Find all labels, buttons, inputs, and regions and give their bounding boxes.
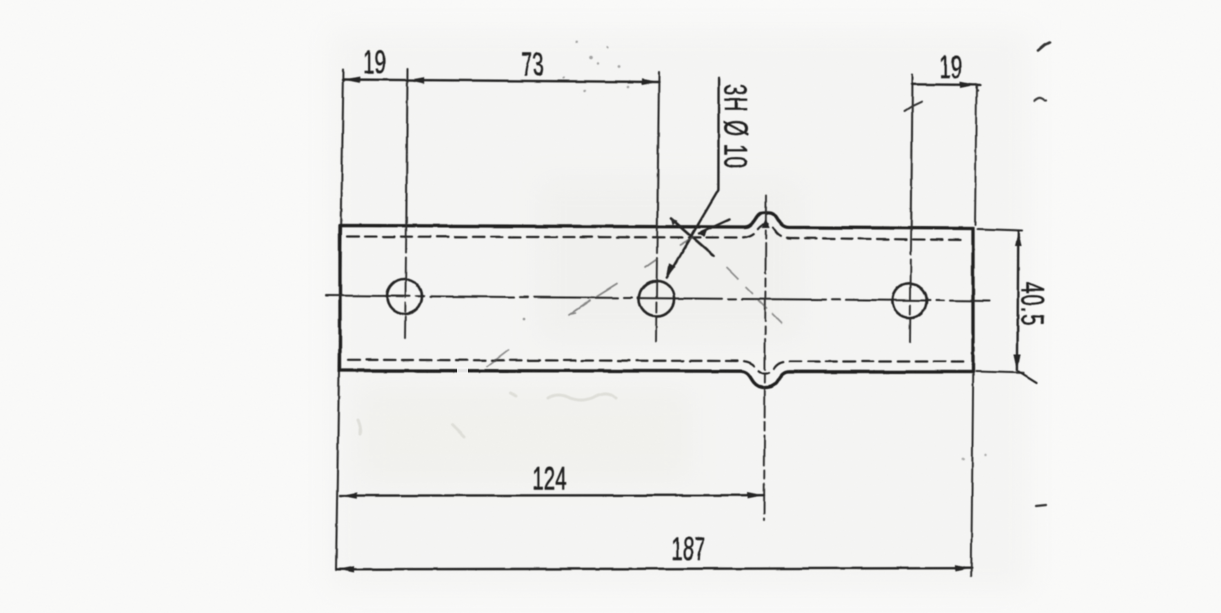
oblique tail [1019, 372, 1037, 383]
faint dots [962, 458, 965, 461]
hole H3 [892, 283, 926, 317]
arrow right [748, 492, 764, 498]
bump centerline (vertical, center) [764, 196, 766, 521]
leader arrowhead [666, 263, 675, 278]
horizontal centerline [326, 296, 990, 302]
right extension line [975, 85, 977, 226]
H2 vertical centerline [657, 73, 659, 227]
187 dimension [337, 568, 972, 569]
bottom extension [976, 372, 1024, 373]
label 19 (right) [939, 49, 962, 85]
stray mark top right (slash) [1038, 43, 1050, 51]
scan dropout on bottom edge [457, 368, 468, 374]
faint construction diagonal left [570, 237, 694, 315]
top extension [978, 229, 1023, 231]
paper grain overlay [0, 0, 1, 1]
label 187 [671, 531, 705, 567]
part outline [340, 212, 973, 387]
leader line 3H ø10 [667, 78, 719, 278]
H3 vertical centerline [911, 75, 912, 228]
bump centerline arrowhead [762, 219, 770, 229]
top arrow [1015, 231, 1022, 247]
arrow left [341, 492, 357, 498]
cross stroke C with arrow [699, 220, 730, 234]
small tick under dim line [905, 102, 923, 112]
faint tick on bottom dashed line [487, 351, 508, 367]
tiny speck [523, 318, 526, 321]
scatter specks near 73 [563, 41, 629, 93]
label 19 (left) [363, 44, 386, 80]
right top dimension 19 [912, 83, 980, 86]
label 40.5 (rotated) [1014, 282, 1050, 327]
H1 vertical centerline [406, 69, 407, 226]
right extension for 187 [971, 374, 973, 576]
stray mark squiggle [1035, 98, 1047, 101]
cross stroke B [671, 219, 714, 256]
124 dimension [340, 494, 764, 497]
hole H1 [387, 279, 422, 314]
label 3H ø 10 (rotated) [717, 84, 753, 169]
top dimension line 19/73 [343, 80, 659, 83]
label 124 [532, 461, 566, 497]
arrow at x657 [642, 79, 658, 85]
arrow right [955, 565, 971, 571]
arrow at x343 [344, 77, 360, 83]
arrow left [338, 566, 354, 572]
arrow pointing right near x976 [960, 82, 976, 88]
bottom hidden dashed line [348, 360, 964, 374]
bottom arrow [1014, 355, 1021, 371]
stray dot [976, 89, 978, 91]
faint construction diagonal right [727, 268, 782, 323]
ghost smudge marks below part [358, 393, 616, 437]
left extension line (full height) [336, 70, 344, 571]
dimension line vertical [1016, 231, 1019, 370]
arrow outside at x408 [408, 77, 424, 83]
label 73 [521, 47, 544, 83]
hole H2 [639, 281, 674, 316]
top hidden dashed line [347, 224, 964, 240]
stray dash right of 187 [1036, 505, 1046, 506]
